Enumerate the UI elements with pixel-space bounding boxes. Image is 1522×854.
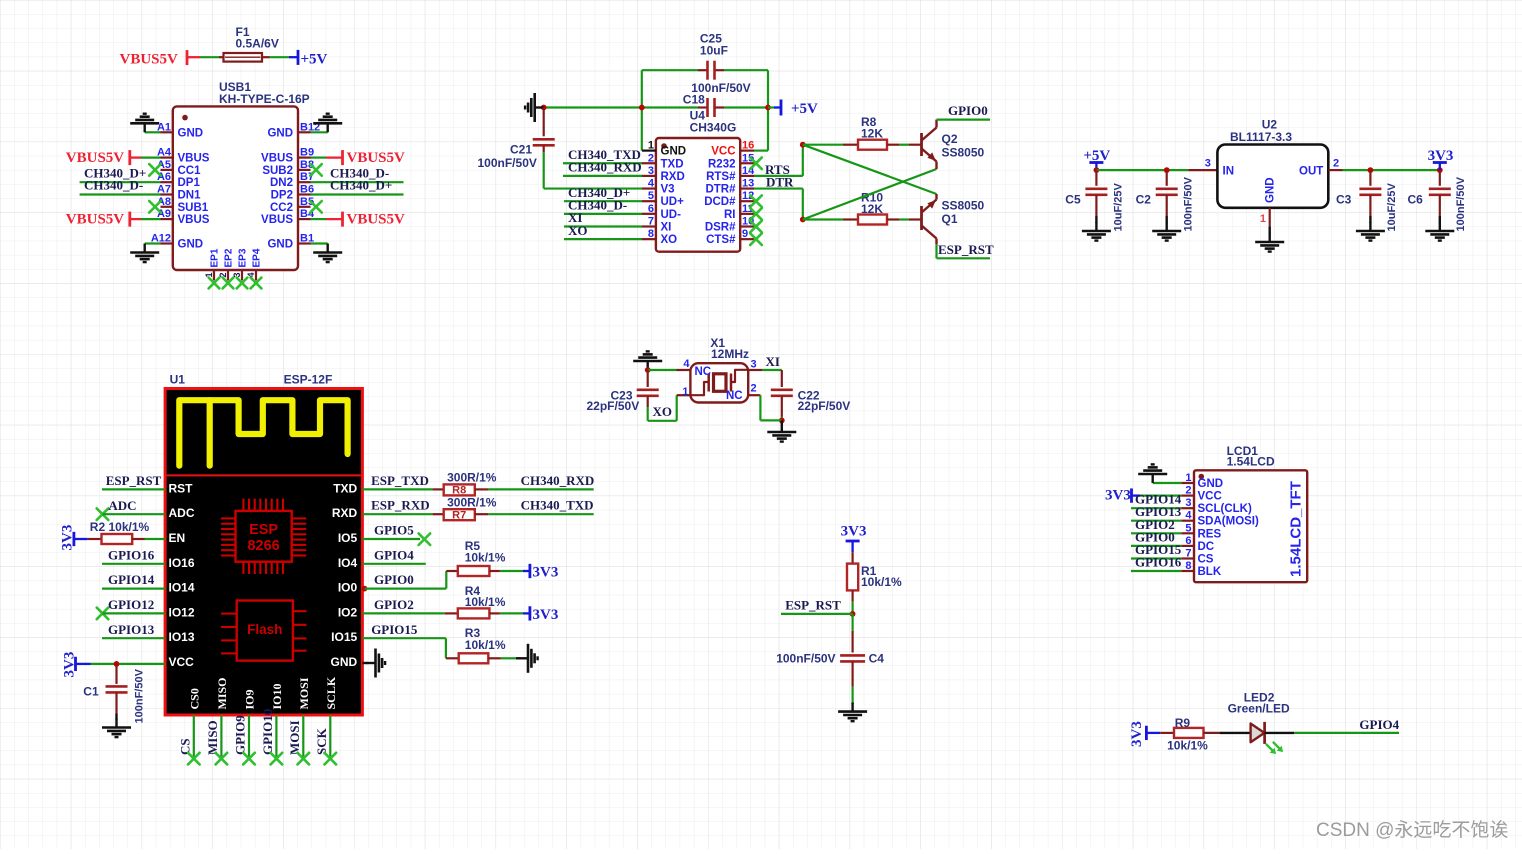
svg-text:RTS#: RTS# [706,171,736,183]
svg-text:CH340_RXD: CH340_RXD [568,160,642,175]
svg-text:ADC: ADC [169,506,195,520]
svg-text:+5V: +5V [301,52,328,68]
svg-text:IO2: IO2 [338,605,358,619]
svg-text:CTS#: CTS# [706,234,736,246]
svg-text:VCC: VCC [1198,491,1222,503]
svg-text:MOSI: MOSI [287,720,302,755]
svg-text:16: 16 [742,140,754,152]
svg-text:XO: XO [568,223,588,238]
svg-text:Flash: Flash [247,622,282,637]
svg-text:GND: GND [1265,177,1277,203]
svg-text:VBUS: VBUS [261,214,293,226]
svg-text:EN: EN [169,531,186,545]
svg-text:RES: RES [1198,528,1222,540]
svg-text:EP1: EP1 [210,248,221,267]
svg-text:ADC: ADC [108,498,136,513]
svg-text:IO12: IO12 [169,605,195,619]
svg-text:CC1: CC1 [178,165,202,177]
svg-text:ESP_RST: ESP_RST [938,242,994,257]
svg-text:12K: 12K [861,202,883,216]
svg-text:C1: C1 [83,685,99,699]
svg-text:7: 7 [648,216,654,228]
svg-text:300R/1%: 300R/1% [447,471,497,485]
svg-text:3V3: 3V3 [533,565,559,581]
svg-text:VBUS5V: VBUS5V [66,211,125,227]
svg-text:1: 1 [682,386,688,398]
svg-text:100nF/50V: 100nF/50V [478,156,537,170]
svg-text:10k/1%: 10k/1% [465,638,506,652]
svg-text:4: 4 [1185,510,1192,522]
svg-text:SCK: SCK [314,727,329,755]
svg-text:R7: R7 [452,509,466,521]
svg-text:2: 2 [1333,157,1339,169]
svg-text:DN2: DN2 [270,177,293,189]
svg-text:10uF: 10uF [700,44,728,58]
svg-text:RXD: RXD [661,171,685,183]
svg-text:U1: U1 [170,372,186,386]
svg-text:3V3: 3V3 [1105,487,1131,503]
svg-text:100nF/50V: 100nF/50V [776,652,835,666]
svg-text:Q2: Q2 [942,132,958,146]
svg-text:R2 10k/1%: R2 10k/1% [90,520,150,534]
svg-text:IO5: IO5 [338,531,358,545]
svg-text:GPIO9: GPIO9 [233,715,248,755]
svg-text:TXD: TXD [333,481,357,495]
svg-text:DSR#: DSR# [705,222,736,234]
svg-text:7: 7 [1185,548,1191,560]
svg-text:GPIO13: GPIO13 [108,622,155,637]
svg-text:GND: GND [1198,478,1224,490]
svg-text:VBUS5V: VBUS5V [120,52,179,68]
svg-text:3: 3 [1185,497,1191,509]
svg-text:VBUS: VBUS [261,153,293,165]
svg-text:IO9: IO9 [243,689,257,709]
svg-text:SCL(CLK): SCL(CLK) [1198,503,1252,515]
svg-text:UD-: UD- [661,209,682,221]
svg-text:XI: XI [661,222,672,234]
svg-text:DN1: DN1 [178,190,202,202]
svg-text:GPIO2: GPIO2 [374,597,414,612]
svg-text:IO10: IO10 [270,683,284,709]
svg-text:10k/1%: 10k/1% [465,595,506,609]
svg-text:3: 3 [648,165,654,177]
svg-text:XO: XO [653,404,673,419]
svg-text:13: 13 [742,178,754,190]
svg-text:GPIO15: GPIO15 [371,622,418,637]
svg-text:2: 2 [648,152,654,164]
svg-text:R232: R232 [708,158,736,170]
svg-text:GND: GND [267,127,293,139]
svg-text:TXD: TXD [661,158,684,170]
svg-text:CH340_TXD: CH340_TXD [521,498,594,513]
svg-text:R9: R9 [1175,716,1191,730]
svg-text:10k/1%: 10k/1% [861,575,902,589]
svg-text:IN: IN [1223,165,1235,177]
svg-text:VBUS: VBUS [178,153,210,165]
svg-text:SDA(MOSI): SDA(MOSI) [1198,516,1260,528]
svg-text:8266: 8266 [247,538,279,554]
svg-text:5: 5 [1185,522,1191,534]
svg-text:2: 2 [1185,485,1191,497]
svg-text:100nF/50V: 100nF/50V [134,668,146,723]
svg-text:VBUS5V: VBUS5V [66,150,125,166]
svg-text:10k/1%: 10k/1% [1167,738,1208,752]
svg-text:EP2: EP2 [224,248,235,267]
svg-text:+5V: +5V [791,101,818,117]
svg-text:SCLK: SCLK [324,676,338,709]
svg-text:22pF/50V: 22pF/50V [587,399,640,413]
svg-text:GPIO14: GPIO14 [108,572,155,587]
svg-text:DC: DC [1198,541,1215,553]
svg-text:DP2: DP2 [271,190,293,202]
svg-text:10uF/25V: 10uF/25V [1113,183,1125,232]
svg-text:IO16: IO16 [169,556,195,570]
svg-text:UD+: UD+ [661,196,685,208]
svg-text:3V3: 3V3 [841,523,867,539]
svg-text:OUT: OUT [1299,165,1323,177]
svg-text:IO4: IO4 [338,556,358,570]
svg-text:10k/1%: 10k/1% [465,550,506,564]
svg-text:BL1117-3.3: BL1117-3.3 [1230,130,1292,144]
svg-text:GPIO5: GPIO5 [374,523,414,538]
svg-text:5: 5 [648,190,654,202]
svg-text:3: 3 [751,359,757,371]
svg-text:IO0: IO0 [338,581,358,595]
svg-text:CS0: CS0 [187,688,201,709]
svg-text:9: 9 [742,228,748,240]
svg-text:ESP_TXD: ESP_TXD [371,473,429,488]
svg-text:0.5A/6V: 0.5A/6V [236,37,279,51]
svg-text:C4: C4 [869,652,885,666]
svg-text:C21: C21 [510,143,532,157]
svg-text:CC2: CC2 [270,202,293,214]
svg-text:V3: V3 [661,184,675,196]
svg-text:ESP-12F: ESP-12F [284,372,333,386]
svg-text:GPIO0: GPIO0 [374,572,414,587]
svg-text:1: 1 [1260,213,1266,225]
svg-text:3: 3 [1205,157,1211,169]
svg-text:300R/1%: 300R/1% [447,495,497,509]
svg-text:100nF/50V: 100nF/50V [1455,176,1467,231]
svg-text:4: 4 [648,178,655,190]
svg-text:KH-TYPE-C-16P: KH-TYPE-C-16P [219,92,310,106]
svg-text:GND: GND [661,146,687,158]
svg-text:C6: C6 [1408,193,1424,207]
svg-text:NC: NC [726,390,743,402]
svg-text:8: 8 [648,228,654,240]
svg-text:CSDN @永远吃不饱诶: CSDN @永远吃不饱诶 [1316,819,1508,841]
svg-text:ESP: ESP [249,522,278,538]
svg-text:DTR#: DTR# [705,184,736,196]
svg-text:CH340_RXD: CH340_RXD [521,473,595,488]
svg-text:CH340_D+: CH340_D+ [330,178,392,193]
svg-text:3V3: 3V3 [1129,721,1145,747]
svg-text:GND: GND [267,239,293,251]
svg-text:EP3: EP3 [238,248,249,267]
svg-text:GPIO10: GPIO10 [260,709,275,755]
svg-text:6: 6 [1185,535,1191,547]
svg-text:8: 8 [1185,560,1191,572]
svg-text:IO13: IO13 [169,630,195,644]
svg-text:GPIO4: GPIO4 [374,547,414,562]
svg-text:VBUS: VBUS [178,214,210,226]
svg-text:GPIO12: GPIO12 [108,597,154,612]
svg-text:Green/LED: Green/LED [1228,702,1290,716]
svg-text:CS: CS [1198,554,1214,566]
svg-text:MISO: MISO [215,677,229,709]
svg-text:XI: XI [766,354,780,369]
svg-text:Q1: Q1 [942,212,958,226]
svg-text:6: 6 [648,203,654,215]
svg-text:22pF/50V: 22pF/50V [798,399,851,413]
svg-text:VBUS5V: VBUS5V [347,211,406,227]
svg-text:CH340_D-: CH340_D- [84,178,143,193]
svg-text:GPIO16: GPIO16 [1135,555,1182,570]
svg-text:C18: C18 [683,93,705,107]
svg-text:VCC: VCC [169,655,195,669]
svg-text:4: 4 [683,358,690,370]
svg-text:C3: C3 [1336,193,1352,207]
svg-text:DCD#: DCD# [704,196,736,208]
svg-text:VBUS5V: VBUS5V [347,150,406,166]
svg-text:XO: XO [661,234,678,246]
svg-text:DP1: DP1 [178,177,201,189]
svg-text:1: 1 [1185,472,1191,484]
svg-text:100nF/50V: 100nF/50V [1183,176,1195,231]
svg-text:EP4: EP4 [252,248,263,267]
svg-text:C5: C5 [1065,193,1081,207]
svg-text:RI: RI [724,209,736,221]
svg-text:ESP_RXD: ESP_RXD [371,498,430,513]
svg-text:CS: CS [177,738,192,755]
svg-text:3V3: 3V3 [533,607,559,623]
svg-text:1.54LCD: 1.54LCD [1227,454,1275,468]
svg-text:BLK: BLK [1198,566,1222,578]
svg-text:GND: GND [178,239,204,251]
svg-text:2: 2 [751,382,757,394]
svg-text:RXD: RXD [332,506,358,520]
svg-text:MOSI: MOSI [297,677,311,709]
svg-text:12K: 12K [861,127,883,141]
svg-text:SS8050: SS8050 [942,199,985,213]
svg-text:IO15: IO15 [331,630,357,644]
svg-text:GPIO4: GPIO4 [1359,717,1399,732]
svg-text:C2: C2 [1136,193,1152,207]
svg-text:MISO: MISO [205,720,220,755]
svg-text:GND: GND [178,127,204,139]
svg-text:ESP_RST: ESP_RST [106,473,162,488]
svg-text:DTR: DTR [766,175,794,190]
svg-text:SUB1: SUB1 [178,202,209,214]
svg-text:1.54LCD_TFT: 1.54LCD_TFT [1288,481,1305,577]
svg-text:SUB2: SUB2 [262,165,293,177]
svg-text:CH340G: CH340G [690,121,737,135]
svg-text:SS8050: SS8050 [942,146,985,160]
svg-text:ESP_RST: ESP_RST [785,598,841,613]
svg-text:VCC: VCC [711,146,735,158]
svg-text:3V3: 3V3 [1428,148,1454,164]
svg-text:GPIO0: GPIO0 [948,103,988,118]
svg-text:10uF/25V: 10uF/25V [1386,183,1398,232]
svg-text:IO14: IO14 [169,581,195,595]
svg-text:GPIO16: GPIO16 [108,547,155,562]
svg-text:RST: RST [169,481,194,495]
svg-text:GND: GND [331,655,358,669]
svg-text:12MHz: 12MHz [711,347,749,361]
svg-text:1: 1 [648,140,654,152]
svg-text:NC: NC [695,366,712,378]
